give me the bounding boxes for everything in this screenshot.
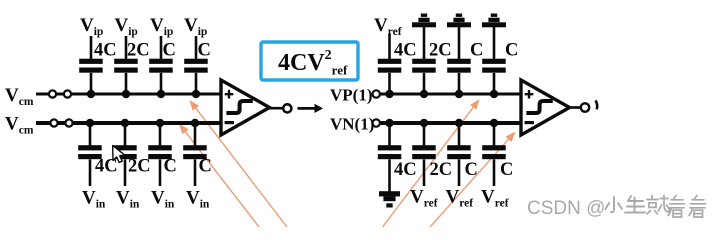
node: junction right top rail col 4 xyxy=(490,90,498,98)
capacitor C12 (C) right bottom array xyxy=(482,123,506,186)
svg-text:C: C xyxy=(163,41,176,61)
capacitor C8 (C) right top array xyxy=(482,25,506,94)
mouse cursor xyxy=(113,146,125,163)
annotation arrow to left DAC bottom plate rail xyxy=(179,124,259,228)
node: junction right bottom rail col 3 xyxy=(455,119,463,127)
partial glyph right of U2 output xyxy=(596,101,598,110)
comparator U1 minus input mark xyxy=(225,121,234,124)
node: junction right top rail col 1 xyxy=(385,90,393,98)
svg-text:C: C xyxy=(199,157,212,177)
svg-text:C: C xyxy=(505,41,518,61)
node: junction right bottom rail col 2 xyxy=(420,119,428,127)
node: junction right top rail col 3 xyxy=(455,90,463,98)
comparator U1 plus input mark xyxy=(225,90,234,99)
capacitor C5 (4C) right top array xyxy=(378,34,402,95)
capacitor C2 (2C) left bottom array xyxy=(113,123,137,186)
svg-text:C: C xyxy=(470,41,483,61)
ground (top, col 3) xyxy=(447,22,471,27)
wire: right bottom-plate rail (VN(1) to comparator U2) xyxy=(380,121,522,125)
capacitor C4 (C) left top array xyxy=(184,36,208,94)
svg-text:VN(1): VN(1) xyxy=(330,115,374,134)
svg-text:4C: 4C xyxy=(394,160,417,180)
comparator U2 body xyxy=(521,80,570,135)
svg-text:2C: 2C xyxy=(429,41,452,61)
wire: U2 output lead xyxy=(570,106,581,109)
node: VN(1) input terminal xyxy=(373,119,380,126)
node: U2 output terminal xyxy=(581,103,589,111)
switch S2 (bottom Vcm sampling switch) xyxy=(50,119,72,126)
wire: left bottom-plate rail (Vcm to comparator U1) xyxy=(36,121,221,125)
comparator U2 hysteresis step symbol xyxy=(528,101,550,113)
switch S1 (top Vcm sampling switch) xyxy=(49,90,71,97)
wire: right top-plate rail (VP(1) to comparator U2) xyxy=(380,93,522,96)
watermark chinese glyphs (vector approximation) xyxy=(606,196,706,218)
comparator U1 body xyxy=(221,80,270,135)
capacitor C3 (C) left top array xyxy=(149,36,173,94)
arrow: transition to second phase xyxy=(298,104,324,113)
svg-text:2C: 2C xyxy=(128,157,151,177)
node: junction left top rail col 4 xyxy=(192,90,200,98)
node: junction left bottom rail col 4 xyxy=(191,119,199,127)
svg-text:4C: 4C xyxy=(94,41,117,61)
svg-text:C: C xyxy=(500,160,513,180)
capacitor C6 (2C) right top array xyxy=(412,25,436,94)
svg-text:4C: 4C xyxy=(394,41,417,61)
annotation arrow to right DAC bottom plate rail xyxy=(430,132,516,228)
comparator U2 minus input mark xyxy=(525,121,534,124)
svg-text:2C: 2C xyxy=(127,41,150,61)
capacitor C2 (2C) left top array xyxy=(114,36,138,94)
capacitor C1 (4C) left top array xyxy=(79,36,103,94)
node: junction left top rail col 3 xyxy=(157,90,165,98)
comparator U2 plus input mark xyxy=(525,90,534,99)
svg-text:C: C xyxy=(164,157,177,177)
wire: left top-plate rail (Vcm to comparator U1) xyxy=(36,93,221,96)
comparator U1 hysteresis step symbol xyxy=(228,101,250,113)
node: junction right bottom rail col 4 xyxy=(490,119,498,127)
capacitor C1 (4C) left bottom array xyxy=(78,123,102,186)
node: VP(1) input terminal xyxy=(373,90,380,97)
ground (top, col 2) xyxy=(412,22,436,27)
svg-text:VP(1): VP(1) xyxy=(330,86,372,105)
node: junction right bottom rail col 1 xyxy=(385,119,393,127)
node: junction left bottom rail col 2 xyxy=(121,119,129,127)
capacitor C7 (C) right top array xyxy=(447,25,471,94)
svg-text:C: C xyxy=(198,41,211,61)
svg-text:2C: 2C xyxy=(430,160,453,180)
ground (bottom, col 1) xyxy=(379,191,400,196)
annotation arrow to right DAC top plate rail xyxy=(383,99,480,227)
node: junction left bottom rail col 1 xyxy=(86,119,94,127)
wire: U1 output lead xyxy=(270,107,284,110)
capacitor C9 (4C) right bottom array xyxy=(378,123,402,192)
annotation arrow to left DAC top plate rail xyxy=(190,100,288,227)
svg-text:CSDN @: CSDN @ xyxy=(527,198,605,219)
capacitor C10 (2C) right bottom array xyxy=(412,123,436,186)
capacitor C4 (C) left bottom array xyxy=(183,123,207,186)
node: junction left bottom rail col 3 xyxy=(156,119,164,127)
svg-text:C: C xyxy=(465,160,478,180)
capacitor C3 (C) left bottom array xyxy=(148,123,172,186)
node: U1 output terminal xyxy=(283,104,291,112)
capacitor C11 (C) right bottom array xyxy=(447,123,471,186)
node: junction left top rail col 1 xyxy=(87,90,95,98)
highlight box 4CVref^2 energy xyxy=(261,42,358,80)
ground (top, col 4) xyxy=(482,22,506,27)
node: junction right top rail col 2 xyxy=(420,90,428,98)
node: junction left top rail col 2 xyxy=(122,90,130,98)
